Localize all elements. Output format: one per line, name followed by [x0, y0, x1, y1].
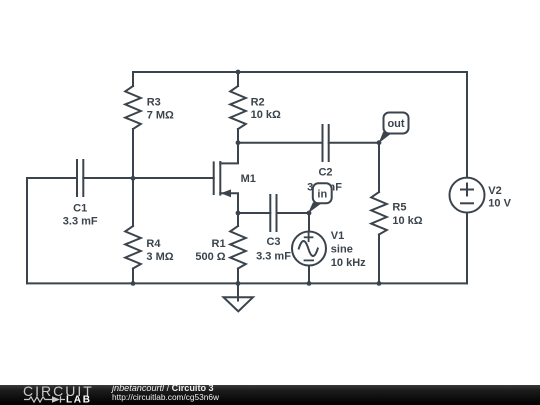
label C2 — [307, 166, 342, 193]
svg-text:V2: V2 — [488, 185, 501, 197]
wire top rail — [133, 71, 467, 73]
svg-text:C3: C3 — [266, 236, 280, 248]
resistor R3 — [125, 86, 141, 129]
svg-text:R2: R2 — [251, 97, 265, 109]
svg-text:R1: R1 — [212, 238, 226, 250]
wire bottom rail — [27, 282, 467, 284]
logo schematic squiggle — [24, 396, 65, 402]
wire R5 top lead — [378, 143, 380, 192]
svg-text:3.3 mF: 3.3 mF — [63, 216, 98, 228]
capacitor C3 — [270, 195, 276, 231]
node out — [377, 140, 382, 145]
wire R1 top lead — [237, 213, 239, 226]
node gate junction — [131, 176, 136, 181]
resistor R5 — [371, 192, 387, 235]
node flag out — [379, 113, 409, 144]
label C1 — [63, 202, 98, 227]
wire C2 to out node — [329, 142, 379, 144]
svg-text:10 kΩ: 10 kΩ — [392, 215, 422, 227]
wire left rail — [26, 178, 28, 283]
node bottom rail ground — [236, 281, 241, 286]
wire R2 top lead — [237, 72, 239, 86]
wire R5 bottom lead — [378, 235, 380, 284]
node source junction — [236, 211, 241, 216]
svg-text:R5: R5 — [392, 202, 406, 214]
wire R1 bottom lead — [237, 269, 239, 284]
wire source node to C3 — [238, 212, 270, 214]
svg-text:LAB: LAB — [66, 395, 92, 405]
resistor R4 — [125, 226, 141, 269]
node bottom rail R5 — [377, 281, 382, 286]
node bottom rail R4 — [131, 281, 136, 286]
svg-text:in: in — [317, 189, 327, 201]
svg-text:3 MΩ: 3 MΩ — [146, 251, 173, 263]
svg-text:R4: R4 — [146, 238, 161, 250]
node drain junction — [236, 140, 241, 145]
wire R3 bottom lead — [132, 129, 134, 178]
svg-text:10 V: 10 V — [488, 198, 511, 210]
ground — [224, 283, 254, 311]
transistor M1 — [214, 143, 238, 213]
label R2 — [251, 97, 281, 121]
node flag in — [308, 183, 332, 213]
resistor R2 — [230, 86, 246, 129]
svg-text:R3: R3 — [147, 97, 161, 109]
wire C3 to in node — [277, 212, 310, 214]
label R3 — [147, 97, 174, 122]
svg-text:10 kHz: 10 kHz — [331, 257, 366, 269]
resistor R1 — [230, 226, 246, 269]
svg-text:http://circuitlab.com/cg53n6w: http://circuitlab.com/cg53n6w — [112, 392, 220, 402]
svg-text:out: out — [387, 118, 404, 130]
svg-text:10 kΩ: 10 kΩ — [251, 109, 281, 121]
source V1 — [292, 232, 326, 266]
svg-text:C2: C2 — [318, 166, 332, 178]
svg-text:3.3 mF: 3.3 mF — [256, 251, 291, 263]
svg-text:V1: V1 — [331, 230, 344, 242]
wire V2 top lead — [466, 72, 468, 178]
wire C1 right lead / gate wire — [83, 177, 213, 179]
wire drain node to C2 — [238, 142, 323, 144]
label R4 — [146, 238, 173, 263]
wire R4 top lead — [132, 178, 134, 226]
wire C1 left lead — [27, 177, 77, 179]
wire V1 top lead — [308, 213, 310, 232]
footer bar — [0, 383, 540, 405]
svg-text:sine: sine — [331, 243, 353, 255]
label V2 — [488, 185, 511, 210]
svg-text:M1: M1 — [241, 173, 256, 185]
label R1 — [195, 238, 225, 263]
svg-text:7 MΩ: 7 MΩ — [147, 110, 174, 122]
logo diode — [52, 396, 60, 403]
label C3 — [256, 236, 291, 263]
svg-text:C1: C1 — [73, 202, 87, 214]
wire V1 bottom lead — [308, 266, 310, 284]
capacitor C2 — [323, 125, 329, 161]
capacitor C1 — [77, 160, 83, 196]
node junction dots — [131, 70, 382, 286]
wire R3 top lead — [132, 72, 134, 86]
node in — [307, 211, 312, 216]
wire V2 bottom lead — [466, 213, 468, 284]
label V1 — [331, 230, 366, 269]
wire R4 bottom lead — [132, 269, 134, 284]
label R5 — [392, 202, 422, 227]
svg-text:500 Ω: 500 Ω — [195, 251, 225, 263]
wire R2 bottom lead — [237, 129, 239, 143]
node top rail junction — [236, 70, 241, 75]
source V2 — [450, 178, 485, 213]
node bottom rail V1 — [307, 281, 312, 286]
